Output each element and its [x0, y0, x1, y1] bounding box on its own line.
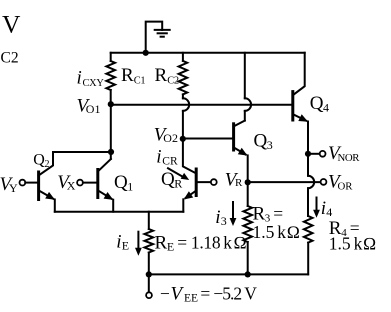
svg-text:i: i — [116, 232, 121, 253]
svg-text:Q: Q — [161, 169, 175, 190]
transistor QR collector — [183, 139, 196, 174]
wire RC2 hop to VO2 — [182, 111, 184, 139]
svg-text:1.5: 1.5 — [253, 222, 275, 242]
svg-text:C2: C2 — [1, 50, 19, 67]
transistor Q4 emitter arrowhead — [298, 114, 308, 122]
svg-text:E: E — [122, 239, 129, 253]
resistor R3 — [243, 206, 252, 242]
svg-text:i: i — [156, 146, 161, 167]
svg-text:V: V — [2, 10, 21, 39]
wire Q2 emitter lead — [54, 200, 56, 212]
svg-text:Q: Q — [33, 152, 45, 169]
transistor QR emitter arrowhead — [184, 191, 194, 199]
wire bottom VEE rail — [149, 273, 308, 275]
svg-text:=: = — [273, 204, 283, 224]
wire top VCC rail — [111, 52, 305, 54]
wire Q2 collector horizontal — [53, 151, 111, 153]
terminal VY — [20, 180, 26, 186]
wire VO1 rail — [111, 104, 293, 106]
svg-text:Ω: Ω — [233, 232, 246, 252]
transistor Q3 emitter arrowhead — [238, 148, 248, 156]
svg-text:=: = — [177, 232, 187, 252]
svg-text:R: R — [174, 176, 182, 190]
svg-text:4: 4 — [326, 205, 332, 219]
transistor Q3 emitter — [234, 147, 246, 154]
wire QR emitter lead — [182, 199, 184, 211]
svg-text:Ω: Ω — [287, 222, 300, 242]
svg-text:CR: CR — [162, 156, 178, 168]
resistor RC1 — [110, 53, 112, 61]
transistor Q1 base lead — [83, 182, 98, 184]
resistor RC2 top lead — [182, 53, 184, 61]
wire hop over VO1 rail at Q3 feed — [245, 98, 251, 111]
svg-text:k: k — [354, 234, 363, 254]
svg-text:i: i — [215, 207, 220, 228]
terminal -VEE — [146, 292, 152, 298]
svg-text:3: 3 — [221, 214, 227, 228]
svg-text:C1: C1 — [134, 76, 146, 87]
node VO1 dot — [108, 101, 114, 107]
transistor QR bar — [195, 169, 198, 196]
wire VO2 to Q3 base — [183, 138, 234, 140]
transistor Q1 emitter — [98, 190, 112, 199]
current arrow iCR — [168, 168, 183, 177]
resistor R4 — [304, 216, 313, 243]
transistor Q1 bar — [96, 170, 99, 198]
terminal VOR — [321, 179, 327, 185]
svg-text:V: V — [171, 284, 185, 305]
transistor Q1 emitter arrowhead — [104, 192, 114, 200]
terminal VX — [77, 180, 83, 186]
svg-text:4: 4 — [323, 101, 329, 115]
wire Q3 feed lower — [244, 111, 246, 121]
wire Q3 collector feed — [244, 53, 246, 99]
current arrow i3 — [232, 202, 234, 220]
svg-text:Q: Q — [114, 172, 128, 193]
svg-text:−5.2: −5.2 — [213, 284, 241, 304]
wire VEE terminal stem — [148, 274, 150, 292]
transistor Q2 bar — [37, 172, 40, 200]
transistor Q3 collector — [234, 121, 245, 127]
transistor Q2 emitter — [39, 190, 54, 198]
svg-text:−: − — [160, 284, 170, 304]
svg-text:Q: Q — [254, 131, 268, 152]
junction dot VNOR — [305, 151, 311, 157]
svg-text:1: 1 — [127, 180, 133, 194]
wire R3 bottom lead — [247, 242, 249, 274]
svg-text:k: k — [277, 222, 286, 242]
wire Q3 emitter lead — [247, 155, 249, 182]
junction dot Q2 collector — [108, 149, 114, 155]
svg-text:R: R — [155, 232, 168, 253]
svg-text:=: = — [200, 284, 210, 304]
svg-text:E: E — [167, 240, 174, 254]
svg-text:OR: OR — [338, 180, 354, 192]
svg-text:i: i — [321, 198, 326, 219]
svg-text:Y: Y — [9, 181, 18, 195]
wire VOR line — [248, 181, 321, 183]
transistor Q4 collector — [293, 53, 305, 95]
junction dot ground-rail — [143, 50, 149, 56]
wire hop over VO1 rail at RC2 — [183, 98, 189, 111]
junction dot R3 bottom — [245, 271, 251, 277]
current arrow iE — [137, 232, 139, 249]
wire Q4 emitter to R4 — [307, 188, 309, 216]
wire VO1 column down — [110, 104, 112, 159]
wire ground connection — [146, 22, 163, 53]
svg-text:EE: EE — [184, 293, 198, 305]
node VO2 dot — [180, 136, 186, 142]
svg-text:CXY: CXY — [83, 78, 105, 89]
transistor Q4 bar — [291, 92, 294, 120]
transistor QR base lead — [196, 181, 211, 183]
wire RE bottom lead — [148, 253, 150, 275]
transistor Q2 collector — [39, 152, 53, 176]
current arrow i4 — [316, 198, 318, 212]
terminal VNOR — [320, 151, 326, 157]
svg-text:2: 2 — [45, 159, 50, 170]
svg-text:1.5: 1.5 — [329, 234, 351, 254]
resistor RE — [145, 229, 154, 253]
svg-text:R: R — [121, 65, 134, 86]
wire VNOR stub — [308, 153, 320, 155]
wire R4 bottom lead — [307, 243, 309, 275]
wire emitter rail — [55, 211, 184, 213]
svg-text:Ω: Ω — [363, 234, 376, 254]
transistor Q2 emitter arrowhead — [45, 192, 55, 200]
svg-text:R: R — [235, 177, 243, 189]
svg-text:1.18: 1.18 — [191, 232, 221, 252]
transistor QR emitter — [186, 191, 197, 198]
svg-text:R: R — [155, 65, 168, 86]
svg-text:C2: C2 — [167, 76, 179, 87]
transistor Q2 base lead — [25, 182, 38, 184]
node VR junction dot — [245, 179, 251, 185]
svg-text:V: V — [244, 284, 257, 304]
svg-text:X: X — [67, 179, 76, 193]
transistor Q4 emitter — [293, 114, 306, 121]
transistor Q3 bar — [232, 124, 235, 150]
svg-text:O1: O1 — [86, 102, 101, 116]
wire Q4 emitter lead — [307, 122, 309, 176]
wire RC2 to hop — [182, 94, 184, 98]
svg-text:3: 3 — [267, 138, 273, 152]
wire hop over VOR line — [308, 176, 314, 188]
svg-text:i: i — [77, 68, 82, 89]
ground — [154, 30, 171, 37]
resistor RC2 — [179, 61, 188, 95]
svg-text:O2: O2 — [163, 131, 178, 145]
junction dot VEE left — [146, 271, 152, 277]
terminal VR — [211, 179, 217, 185]
resistor RE top lead — [148, 212, 150, 229]
svg-text:Q: Q — [310, 93, 324, 114]
svg-text:NOR: NOR — [338, 152, 361, 164]
transistor Q1 collector — [98, 159, 111, 172]
resistor R3 top lead — [247, 182, 249, 206]
wire Q1 emitter lead — [112, 200, 114, 212]
svg-text:k: k — [223, 232, 232, 252]
